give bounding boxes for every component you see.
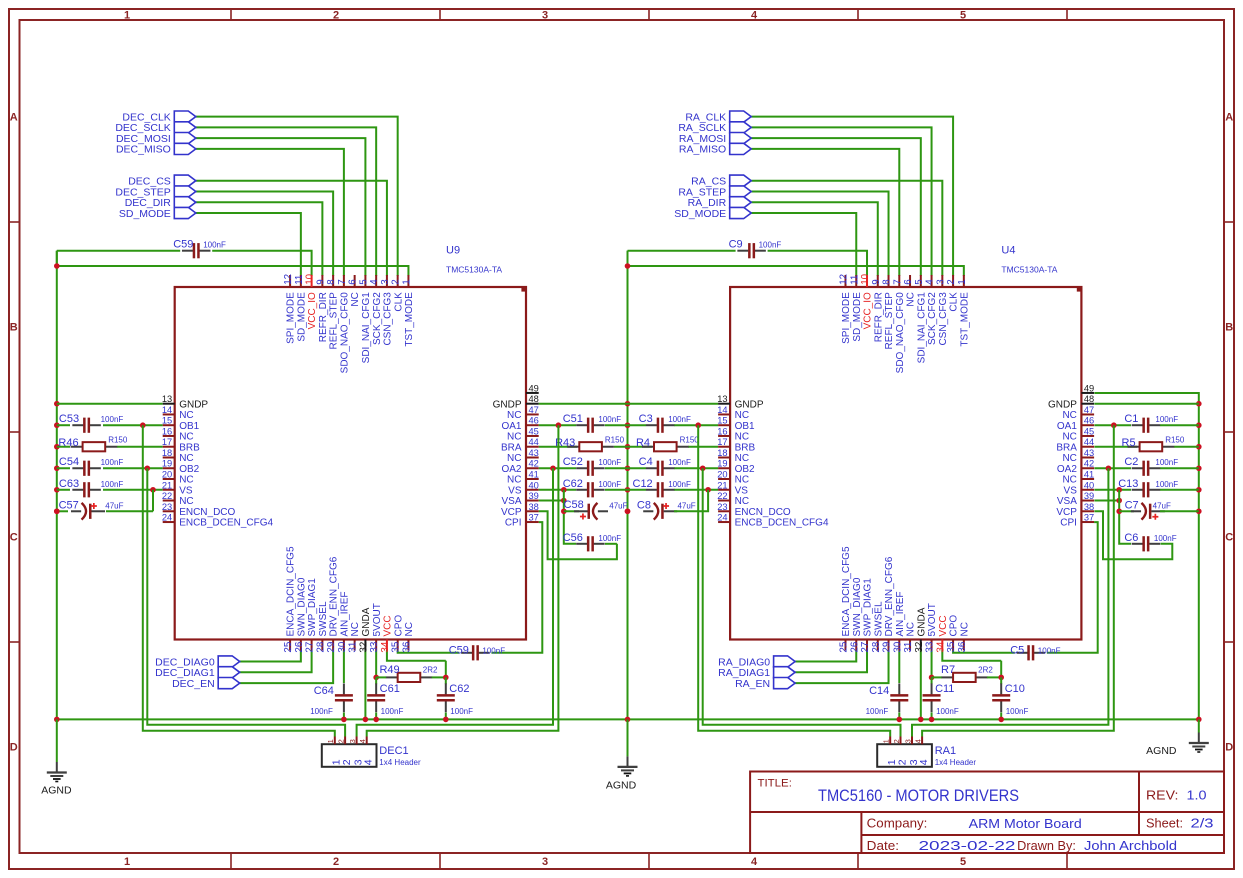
svg-text:NC: NC: [1062, 453, 1076, 464]
pin 37 CPI: [1060, 513, 1094, 529]
svg-text:DEC_MISO: DEC_MISO: [116, 144, 171, 156]
svg-text:1x4 Header: 1x4 Header: [379, 758, 421, 767]
pin 48 GNDP: [493, 394, 539, 410]
wire: [605, 424, 646, 426]
wire: [953, 651, 1015, 653]
junction: [443, 675, 449, 681]
resistor R5: [1122, 436, 1185, 452]
wire: [103, 424, 163, 426]
net label RA_MOSI: [679, 133, 751, 145]
svg-text:100nF: 100nF: [598, 458, 621, 467]
svg-text:GNDP: GNDP: [735, 399, 764, 410]
wire: [364, 651, 366, 720]
wire: [196, 117, 398, 276]
junction: [54, 401, 60, 407]
net label RA_CLK: [685, 111, 751, 123]
svg-text:2023-02-22: 2023-02-22: [919, 839, 1016, 853]
pin 18 NC: [717, 448, 749, 464]
svg-text:18: 18: [717, 448, 727, 458]
svg-text:100nF: 100nF: [759, 241, 782, 250]
svg-text:3: 3: [542, 9, 548, 21]
svg-text:1: 1: [326, 739, 335, 743]
svg-text:28: 28: [871, 641, 882, 652]
junction: [145, 465, 151, 471]
wire: [539, 500, 564, 502]
svg-text:OB2: OB2: [735, 464, 755, 475]
net label DEC_SCLK: [115, 122, 195, 134]
net label RA_EN: [735, 678, 795, 690]
svg-text:C56: C56: [563, 532, 583, 544]
wire: [1119, 510, 1134, 512]
wire: [103, 467, 163, 469]
net label RA_DIR: [688, 197, 752, 209]
svg-text:2R2: 2R2: [423, 666, 438, 675]
pin 23 ENCN_DCO: [162, 502, 236, 518]
wire: [539, 511, 617, 559]
wire: [931, 677, 933, 684]
svg-text:CSN_CFG3: CSN_CFG3: [383, 292, 394, 346]
svg-text:SWP_DIAG1: SWP_DIAG1: [307, 578, 318, 637]
junction: [443, 717, 449, 723]
svg-text:100nF: 100nF: [101, 415, 124, 424]
pin 25 ENCA_DCIN_CFG5: [839, 546, 853, 653]
junction: [54, 487, 60, 493]
junction: [54, 422, 60, 428]
svg-text:9: 9: [871, 279, 882, 284]
svg-text:2: 2: [946, 279, 957, 284]
wire: [367, 425, 559, 736]
svg-text:ARM Motor Board: ARM Motor Board: [969, 817, 1082, 831]
pin 48 GNDP: [1048, 394, 1094, 410]
junction: [54, 263, 60, 269]
junction: [929, 675, 935, 681]
capacitor C13: [1118, 478, 1178, 498]
wire: [1160, 489, 1199, 491]
junction: [54, 717, 60, 723]
net label RA_DIAG0: [718, 656, 795, 668]
pin 24 ENCB_DCEN_CFG4: [717, 513, 829, 529]
svg-text:33: 33: [925, 641, 936, 652]
junction: [695, 422, 701, 428]
pin 20 NC: [162, 470, 194, 486]
resistor R49: [379, 664, 438, 682]
svg-text:21: 21: [717, 480, 727, 490]
junction: [556, 422, 562, 428]
pin 46 OA1: [501, 416, 538, 432]
pin 17 BRB: [717, 437, 755, 453]
junction: [363, 717, 369, 723]
pin 44 BRA: [1056, 437, 1094, 453]
net label DEC_MOSI: [116, 133, 196, 145]
svg-text:NC: NC: [507, 453, 521, 464]
pin 21 VS: [162, 480, 193, 496]
svg-text:VCP: VCP: [501, 507, 522, 518]
wire: [491, 522, 542, 653]
svg-text:32: 32: [358, 642, 369, 653]
wire: [57, 718, 1199, 720]
wire: [445, 713, 447, 720]
svg-text:REV:: REV:: [1146, 789, 1178, 803]
pin 44 BRA: [501, 437, 539, 453]
svg-text:D: D: [1225, 742, 1233, 754]
svg-text:C7: C7: [1125, 500, 1139, 512]
svg-text:C59: C59: [449, 644, 469, 656]
pin 49: [526, 383, 539, 393]
junction: [1116, 508, 1122, 514]
frame column numbers: [124, 9, 966, 868]
title block: [750, 772, 1224, 854]
svg-text:5: 5: [358, 279, 369, 285]
pin 8 REFL_STEP: [882, 275, 896, 349]
capacitor C58: [564, 499, 628, 520]
svg-text:5VOUT: 5VOUT: [372, 603, 383, 636]
svg-text:R150: R150: [605, 436, 625, 445]
svg-text:3: 3: [542, 856, 548, 868]
svg-text:14: 14: [717, 405, 727, 415]
svg-text:NC: NC: [179, 453, 193, 464]
pin 35 CPO: [391, 615, 405, 653]
svg-text:DRV_ENN_CFG6: DRV_ENN_CFG6: [329, 556, 340, 636]
junction: [625, 422, 631, 428]
wire: [751, 138, 921, 276]
pin 19 OB2: [162, 459, 200, 475]
junction: [1196, 465, 1202, 471]
svg-text:NC: NC: [179, 475, 193, 486]
pin 16 NC: [162, 426, 194, 442]
pin 11 SD_MODE: [849, 275, 863, 342]
net label DEC_MISO: [116, 143, 196, 155]
svg-text:AGND: AGND: [1146, 745, 1177, 757]
wire: [1160, 510, 1199, 512]
pin 35 CPO: [946, 615, 960, 653]
svg-text:NC: NC: [735, 496, 749, 507]
svg-text:48: 48: [529, 394, 539, 404]
svg-text:43: 43: [529, 448, 539, 458]
svg-text:C12: C12: [633, 478, 653, 490]
wire: [387, 651, 446, 661]
junction: [373, 717, 379, 723]
wire: [196, 181, 387, 276]
net label RA_STEP: [678, 186, 751, 198]
svg-text:1: 1: [957, 279, 968, 284]
pin 37 CPI: [505, 513, 539, 529]
pin 33 5VOUT: [369, 603, 383, 652]
wire: [398, 651, 460, 653]
pin 28 SWSEL: [315, 601, 329, 653]
pin 2 CLK: [391, 275, 405, 312]
junction: [341, 717, 347, 723]
svg-text:REFR_DIR: REFR_DIR: [873, 292, 884, 342]
svg-text:ENCN_DCO: ENCN_DCO: [179, 507, 235, 518]
pin 9 REFR_DIR: [315, 275, 329, 342]
pin 42 OA2: [501, 459, 538, 475]
pin 36 NC: [401, 622, 415, 653]
svg-text:SPI_MODE: SPI_MODE: [286, 292, 297, 344]
wire: [240, 651, 333, 684]
junction: [625, 717, 631, 723]
junction: [140, 422, 146, 428]
svg-text:C3: C3: [639, 413, 653, 425]
svg-text:46: 46: [529, 416, 539, 426]
svg-text:CPI: CPI: [505, 518, 522, 529]
wire: [922, 425, 1114, 736]
svg-text:R7: R7: [941, 664, 955, 676]
junction: [625, 487, 631, 493]
svg-text:DEC1: DEC1: [379, 745, 408, 757]
svg-text:C53: C53: [59, 413, 79, 425]
wire: [212, 251, 311, 276]
wire: [795, 651, 888, 684]
svg-text:27: 27: [860, 642, 871, 653]
svg-text:8: 8: [882, 279, 893, 285]
junction: [918, 717, 924, 723]
wire: [605, 467, 646, 469]
wire: [564, 510, 579, 512]
svg-text:NC: NC: [1062, 410, 1076, 421]
svg-text:NC: NC: [1062, 475, 1076, 486]
pin 20 NC: [717, 470, 749, 486]
svg-text:Date:: Date:: [867, 839, 899, 853]
svg-text:23: 23: [717, 502, 727, 512]
svg-text:15: 15: [162, 416, 172, 426]
junction: [700, 465, 706, 471]
svg-text:BRB: BRB: [735, 442, 756, 453]
pin 19 OB2: [717, 459, 755, 475]
junction: [998, 717, 1004, 723]
svg-text:R5: R5: [1122, 437, 1136, 449]
wire: [932, 676, 942, 678]
pin 7 SDO_NAO_CFG0: [337, 275, 351, 373]
svg-text:19: 19: [162, 459, 172, 469]
svg-text:VCC: VCC: [383, 615, 394, 636]
svg-text:SWP_DIAG1: SWP_DIAG1: [863, 578, 874, 637]
svg-text:SDO_NAO_CFG0: SDO_NAO_CFG0: [895, 292, 906, 374]
svg-text:2: 2: [333, 9, 339, 21]
svg-text:39: 39: [529, 491, 539, 501]
svg-text:100nF: 100nF: [381, 707, 404, 716]
svg-text:29: 29: [326, 642, 337, 653]
svg-text:C11: C11: [935, 683, 954, 695]
svg-text:4: 4: [918, 759, 930, 765]
pin 9 REFR_DIR: [871, 275, 885, 342]
net label RA_SCLK: [678, 122, 751, 134]
power symbol AGND: [1146, 733, 1209, 758]
svg-text:18: 18: [162, 448, 172, 458]
pin 13 GNDP: [717, 394, 764, 410]
wire: [196, 192, 333, 277]
svg-text:R150: R150: [680, 436, 700, 445]
svg-text:34: 34: [935, 641, 946, 652]
wire: [343, 651, 345, 684]
pin 10 VCC_IO: [860, 273, 874, 329]
pin 45 NC: [507, 426, 539, 442]
svg-text:NC: NC: [350, 622, 361, 636]
pin 40 VS: [508, 480, 539, 496]
svg-text:SCK_CFG2: SCK_CFG2: [927, 292, 938, 345]
capacitor C52: [563, 456, 621, 476]
svg-text:4: 4: [914, 739, 923, 743]
wire: [1000, 677, 1002, 684]
svg-text:R46: R46: [58, 437, 78, 449]
pin 8 REFL_STEP: [326, 275, 340, 349]
svg-text:GNDP: GNDP: [179, 399, 208, 410]
capacitor C3: [639, 413, 691, 433]
svg-text:C10: C10: [1005, 683, 1025, 695]
svg-text:VS: VS: [735, 485, 749, 496]
pin 11 SD_MODE: [294, 275, 308, 342]
wire: [674, 424, 718, 426]
svg-text:C59: C59: [173, 239, 193, 251]
capacitor C5: [1010, 644, 1060, 660]
svg-text:47uF: 47uF: [105, 502, 123, 511]
svg-text:NC: NC: [404, 622, 415, 636]
svg-text:6: 6: [348, 279, 359, 285]
pin 33 5VOUT: [925, 603, 939, 652]
svg-text:NC: NC: [350, 292, 361, 306]
svg-text:SD_MODE: SD_MODE: [119, 208, 171, 220]
wire: [627, 251, 629, 266]
svg-text:25: 25: [839, 641, 850, 652]
resistor R7: [941, 664, 993, 682]
svg-text:R49: R49: [379, 664, 399, 676]
pin 31 NC: [903, 622, 917, 653]
svg-text:NC: NC: [507, 475, 521, 486]
svg-text:U4: U4: [1001, 245, 1015, 257]
svg-text:4: 4: [925, 279, 936, 285]
svg-text:SDI_NAI_CFG1: SDI_NAI_CFG1: [361, 292, 372, 364]
svg-text:TST_MODE: TST_MODE: [404, 292, 415, 347]
svg-text:C54: C54: [59, 456, 79, 468]
wire: [357, 468, 553, 736]
svg-text:21: 21: [162, 480, 172, 490]
svg-text:ENCB_DCEN_CFG4: ENCB_DCEN_CFG4: [735, 518, 829, 529]
svg-text:SPI_MODE: SPI_MODE: [841, 292, 852, 344]
wire: [432, 676, 446, 678]
svg-text:U9: U9: [446, 245, 460, 257]
wire: [56, 251, 58, 266]
net label DEC_DIR: [125, 197, 196, 209]
svg-text:OA2: OA2: [1057, 464, 1077, 475]
svg-text:7: 7: [892, 279, 903, 284]
wire: [751, 127, 931, 276]
svg-text:SWN_DIAG0: SWN_DIAG0: [296, 577, 307, 636]
svg-text:OA1: OA1: [501, 421, 521, 432]
svg-text:VS: VS: [1064, 485, 1078, 496]
wire: [987, 676, 1001, 678]
svg-text:OA1: OA1: [1057, 421, 1077, 432]
svg-text:ENCN_DCO: ENCN_DCO: [735, 507, 791, 518]
wire: [698, 425, 890, 736]
svg-text:OA2: OA2: [501, 464, 521, 475]
wire: [1094, 446, 1137, 448]
junction: [998, 675, 1004, 681]
pin 47 NC: [1062, 405, 1094, 421]
svg-text:John Archbold: John Archbold: [1084, 839, 1177, 853]
junction: [373, 675, 379, 681]
svg-text:100nF: 100nF: [598, 415, 621, 424]
svg-text:100nF: 100nF: [203, 241, 226, 250]
wire: [614, 446, 652, 448]
svg-text:45: 45: [529, 426, 539, 436]
svg-text:AGND: AGND: [41, 785, 72, 797]
svg-text:100nF: 100nF: [668, 480, 691, 489]
pin 32 GNDA: [358, 607, 372, 652]
svg-text:R4: R4: [636, 437, 650, 449]
wire: [196, 202, 323, 276]
wire: [674, 489, 718, 491]
svg-text:NC: NC: [179, 432, 193, 443]
svg-text:4: 4: [363, 759, 375, 765]
net label RA_MISO: [679, 143, 751, 155]
svg-text:2: 2: [337, 739, 346, 743]
svg-text:31: 31: [348, 642, 359, 653]
net label RA_CS: [691, 175, 751, 187]
svg-text:NC: NC: [735, 432, 749, 443]
wire: [196, 213, 301, 276]
pin 42 OA2: [1057, 459, 1094, 475]
svg-text:10: 10: [305, 273, 316, 284]
svg-text:20: 20: [162, 470, 172, 480]
pin 49: [1081, 383, 1094, 393]
capacitor C64: [310, 683, 353, 715]
capacitor C62: [437, 683, 473, 716]
svg-text:32: 32: [914, 642, 925, 653]
svg-text:REFR_DIR: REFR_DIR: [318, 292, 329, 342]
svg-text:100nF: 100nF: [310, 707, 333, 716]
svg-text:26: 26: [849, 641, 860, 652]
svg-text:42: 42: [529, 459, 539, 469]
resistor R46: [58, 436, 127, 452]
svg-text:7: 7: [337, 279, 348, 284]
junction: [54, 444, 60, 450]
pin 29 DRV_ENN_CFG6: [326, 556, 340, 652]
svg-text:CPI: CPI: [1060, 518, 1077, 529]
wire: [931, 713, 933, 720]
svg-text:100nF: 100nF: [101, 480, 124, 489]
pin 29 DRV_ENN_CFG6: [882, 556, 896, 652]
junction: [1196, 487, 1202, 493]
wire: [1000, 713, 1002, 720]
svg-text:100nF: 100nF: [936, 707, 959, 716]
net label DEC_EN: [172, 678, 240, 690]
net label RA_DIAG1: [718, 667, 795, 679]
wire: [898, 651, 900, 684]
net label DEC_CLK: [122, 111, 195, 123]
svg-text:TMC5130A-TA: TMC5130A-TA: [1001, 265, 1057, 275]
svg-text:3: 3: [903, 739, 912, 743]
svg-text:ENCB_DCEN_CFG4: ENCB_DCEN_CFG4: [179, 518, 273, 529]
wire: [1119, 490, 1131, 544]
wire: [912, 468, 1108, 736]
svg-text:48: 48: [1084, 394, 1094, 404]
wire: [920, 651, 922, 720]
svg-text:1: 1: [882, 739, 891, 743]
svg-text:100nF: 100nF: [1155, 415, 1178, 424]
svg-text:NC: NC: [507, 410, 521, 421]
svg-text:C62: C62: [449, 683, 469, 695]
svg-text:33: 33: [369, 641, 380, 652]
svg-text:24: 24: [717, 513, 727, 523]
wire: [1094, 489, 1131, 491]
junction: [625, 263, 631, 269]
capacitor C62: [563, 478, 621, 498]
svg-text:D: D: [10, 742, 18, 754]
svg-text:TMC5130A-TA: TMC5130A-TA: [446, 265, 502, 275]
junction: [54, 508, 60, 514]
svg-text:VCP: VCP: [1056, 507, 1077, 518]
svg-text:39: 39: [1084, 491, 1094, 501]
wire: [56, 719, 58, 762]
